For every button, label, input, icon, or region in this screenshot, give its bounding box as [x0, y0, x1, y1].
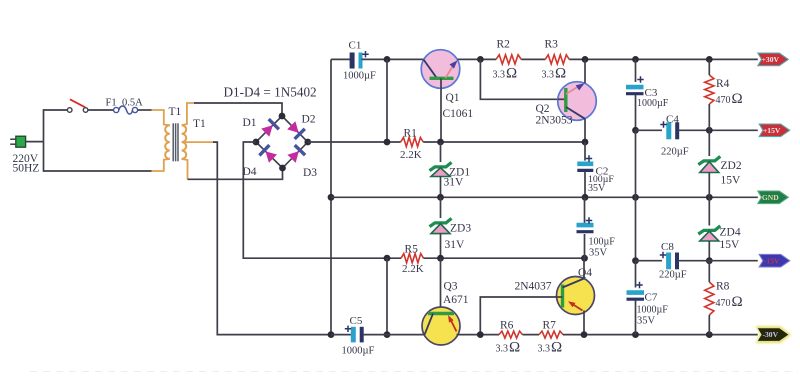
svg-text:220µF: 220µF — [661, 147, 689, 158]
wire +15 line left — [636, 129, 663, 131]
svg-text:R2: R2 — [497, 39, 511, 51]
resistor R2 — [496, 55, 521, 64]
node gnd ZD1-ZD3 — [437, 194, 444, 201]
wire ground vertical x=331 — [330, 59, 332, 334]
transistor Q1 — [421, 50, 460, 89]
capacitor C2 — [584, 142, 586, 161]
scan artifact bottom line — [30, 371, 798, 373]
wire Q4 collector up — [583, 258, 585, 278]
node R4 ZD2 +15 — [706, 127, 713, 134]
capacitor 100uF below gnd — [584, 197, 586, 223]
resistor R6 — [499, 331, 523, 338]
transformer T1 core — [172, 123, 174, 161]
wire Q4 emitter down — [583, 311, 585, 335]
transformer T1 secondary coil — [182, 125, 187, 159]
diode D4 — [266, 151, 278, 162]
svg-text:2N4037: 2N4037 — [515, 281, 552, 293]
node ZD4 R8 -15 — [706, 257, 713, 264]
node bridge left — [253, 139, 260, 146]
transistor Q4 — [557, 277, 595, 315]
svg-text:D2: D2 — [302, 114, 316, 126]
wire R3 to +30V — [569, 58, 758, 60]
zener ZD3 — [440, 197, 442, 218]
resistor R3 — [545, 55, 569, 64]
svg-text:-30V: -30V — [762, 330, 778, 339]
wire fuse to transformer — [138, 109, 152, 111]
wire bridge left node to negative line — [243, 142, 401, 258]
zener ZD1 — [440, 142, 442, 162]
node Q4 emitter bottom rail — [581, 331, 588, 338]
svg-text:1000µF: 1000µF — [342, 346, 375, 357]
svg-text:ZD3: ZD3 — [450, 223, 471, 235]
svg-text:R8: R8 — [716, 281, 730, 293]
node raw- bottom rail — [384, 331, 391, 338]
svg-text:Q3: Q3 — [444, 281, 458, 293]
diode D2 — [287, 121, 299, 133]
svg-text:1000µF: 1000µF — [637, 305, 669, 316]
svg-text:31V: 31V — [445, 239, 466, 251]
svg-text:220µF: 220µF — [659, 270, 687, 281]
svg-text:+15V: +15V — [763, 126, 781, 135]
svg-text:2.2K: 2.2K — [402, 263, 424, 275]
wire raw- vertical — [386, 258, 388, 334]
transformer secondary top lead — [182, 103, 195, 125]
svg-text:Q1: Q1 — [446, 92, 460, 104]
switch S1 — [67, 108, 72, 113]
transformer T1 primary lead top — [152, 110, 170, 125]
resistor R4 — [705, 75, 714, 104]
wire +15 line right — [679, 129, 758, 131]
resistor R1 — [401, 137, 424, 146]
svg-text:15V: 15V — [720, 239, 741, 251]
wire -15 line left — [636, 260, 663, 262]
node Q2 base takeoff — [477, 56, 484, 63]
wire gnd vertical C3-C7 column — [635, 130, 637, 260]
wire ground rail — [331, 196, 758, 198]
node gnd C2 column — [582, 194, 589, 201]
wire Q3 to R6 — [457, 334, 500, 336]
terminal +15V — [759, 124, 790, 137]
svg-text:D3: D3 — [303, 167, 317, 179]
capacitor C7 — [635, 261, 637, 288]
wire secondary bottom to bridge — [188, 168, 283, 179]
wire bottom rail left segment — [331, 334, 352, 336]
node R8 bottom rail — [706, 331, 713, 338]
svg-text:ZD4: ZD4 — [720, 227, 741, 239]
node raw+ top rail — [384, 56, 391, 63]
svg-text:D1-D4 = 1N5402: D1-D4 = 1N5402 — [224, 85, 317, 100]
node C8 gnd side — [632, 257, 639, 264]
wire primary top run — [44, 110, 68, 142]
capacitor C8 — [666, 253, 671, 270]
svg-text:ZD2: ZD2 — [721, 160, 742, 172]
diode D1 — [261, 125, 273, 137]
svg-text:50HZ: 50HZ — [13, 163, 40, 175]
transistor Q3 — [440, 258, 442, 313]
node gnd ZD2-ZD4 — [706, 194, 713, 201]
terminal -15V — [759, 254, 790, 267]
svg-text:D1: D1 — [243, 117, 257, 129]
svg-text:1000µF: 1000µF — [343, 71, 376, 82]
svg-text:0.5A: 0.5A — [122, 98, 143, 109]
terminal +30V — [758, 53, 789, 66]
svg-text:Q4: Q4 — [578, 267, 592, 279]
wire Q4 base — [480, 297, 557, 335]
wire -15 line right — [678, 260, 758, 262]
zener ZD2 — [708, 130, 710, 156]
zener ZD4 — [708, 197, 710, 225]
node Q2 emitter rail — [582, 56, 589, 63]
terminal -30V — [756, 326, 792, 343]
node Q4 collector — [581, 255, 588, 262]
svg-text:GND: GND — [762, 193, 779, 202]
svg-text:R3: R3 — [545, 39, 559, 51]
svg-text:R6: R6 — [500, 320, 514, 332]
svg-text:R7: R7 — [543, 320, 557, 332]
wire R1 line middle — [423, 141, 585, 143]
wire raw+ vertical — [386, 59, 388, 142]
svg-text:C8: C8 — [661, 241, 674, 253]
node C7 bottom rail — [632, 331, 639, 338]
diode D3 — [287, 151, 298, 163]
svg-text:R4: R4 — [716, 78, 730, 90]
svg-text:2.2K: 2.2K — [400, 149, 422, 161]
svg-text:A671: A671 — [443, 294, 469, 306]
node gnd rail start — [328, 194, 335, 201]
wire center tap down to bottom rail — [213, 142, 331, 335]
wire Q2 collector down — [584, 119, 586, 142]
svg-text:R1: R1 — [404, 128, 418, 140]
svg-text:31V: 31V — [444, 177, 465, 189]
capacitor C5 — [351, 327, 356, 343]
svg-text:2N3053: 2N3053 — [536, 114, 573, 126]
wire R5 line right — [424, 257, 585, 259]
fuse F1 — [114, 107, 119, 112]
resistor R5 — [401, 254, 424, 263]
terminal GND — [758, 191, 789, 204]
svg-text:T1: T1 — [193, 118, 206, 130]
svg-text:C1061: C1061 — [443, 108, 474, 120]
node bridge bottom — [279, 165, 286, 172]
node gnd bottom rail — [328, 331, 335, 338]
wire secondary top to bridge — [194, 103, 282, 116]
svg-text:35V: 35V — [588, 183, 606, 194]
svg-text:15V: 15V — [721, 175, 742, 187]
node C3 rail — [632, 56, 639, 63]
svg-text:D4: D4 — [243, 166, 257, 178]
node C3 +15 line — [632, 127, 639, 134]
svg-text:100µF: 100µF — [589, 237, 616, 248]
node Q1 base / ZD1 — [437, 139, 444, 146]
svg-text:35V: 35V — [589, 248, 608, 259]
resistor R8 — [705, 282, 714, 315]
node bridge right — [304, 139, 311, 146]
wire rail Q1 to R2 — [458, 58, 496, 60]
transformer secondary bottom lead — [182, 159, 188, 179]
svg-text:-15V: -15V — [764, 256, 780, 265]
node Q3 base / ZD3 — [437, 255, 444, 262]
node raw+ R1 line — [384, 139, 391, 146]
wire bridge edges — [256, 116, 308, 168]
node Q2 collector / C2 — [582, 139, 589, 146]
capacitor C3 — [635, 59, 637, 82]
wire plug to junction — [26, 141, 44, 143]
node gnd C3 column — [632, 194, 639, 201]
svg-text:35V: 35V — [637, 316, 656, 327]
wire switch to fuse — [88, 109, 114, 111]
wire R6 to R7 — [523, 334, 540, 336]
wire bridge right node to R1 line — [308, 141, 401, 143]
svg-text:F1: F1 — [106, 98, 117, 109]
transformer T1 primary lead bottom — [152, 159, 170, 171]
node R4 rail — [706, 56, 713, 63]
resistor R7 — [539, 331, 563, 338]
node bridge top — [279, 113, 286, 120]
svg-text:C4: C4 — [666, 113, 679, 125]
wire top rail left segment — [331, 58, 351, 60]
node raw- R5 line — [384, 255, 391, 262]
wire R2 to R3 — [521, 58, 545, 60]
wire primary bottom run — [44, 142, 152, 171]
transformer T1 primary coil — [165, 125, 170, 159]
svg-text:C5: C5 — [350, 315, 363, 327]
svg-text:C1: C1 — [349, 40, 362, 52]
svg-text:+30V: +30V — [762, 55, 780, 64]
node Q4 base bottom rail — [477, 331, 484, 338]
wire R7 to -30V — [563, 334, 758, 336]
svg-text:T1: T1 — [169, 106, 182, 118]
wire Q2 base — [480, 59, 557, 99]
svg-text:1000µF: 1000µF — [637, 98, 669, 109]
capacitor C4 — [666, 122, 671, 139]
wire 100uF to R5 line — [584, 234, 586, 258]
wire C5 to Q3 — [363, 334, 425, 336]
wire C1 to Q1 — [362, 58, 424, 60]
svg-text:Q2: Q2 — [536, 103, 550, 115]
svg-text:C7: C7 — [645, 292, 658, 304]
capacitor C1 — [350, 53, 355, 69]
svg-text:R5: R5 — [405, 244, 419, 256]
transformer secondary center tap lead — [185, 141, 218, 143]
wire Q1 base down — [440, 78, 442, 142]
AC plug — [16, 136, 26, 147]
transistor Q2 — [558, 82, 597, 121]
wire Q2 emitter to rail — [584, 59, 586, 83]
